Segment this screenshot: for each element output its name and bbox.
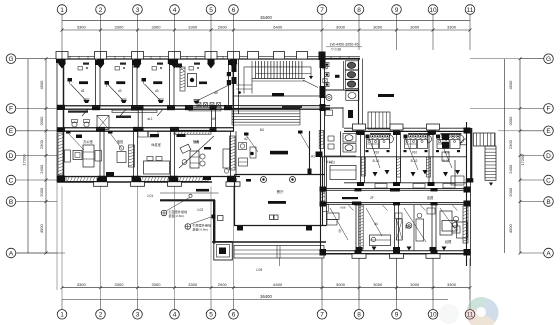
svg-text:3000: 3000 [373, 24, 383, 29]
svg-text:36400: 36400 [260, 294, 272, 299]
svg-text:6400: 6400 [273, 24, 283, 29]
big hall fixtures [246, 179, 286, 272]
svg-text:d3: d3 [118, 89, 122, 93]
svg-text:3000: 3000 [410, 24, 420, 29]
svg-text:3300: 3300 [447, 24, 457, 29]
grounding symbol 1 [161, 197, 190, 218]
svg-text:6: 6 [232, 7, 236, 14]
washroom dividers [344, 131, 467, 183]
svg-text:3000: 3000 [336, 282, 346, 287]
A line stub [16, 252, 65, 254]
svg-text:3300: 3300 [152, 282, 162, 287]
svg-text:宿舍: 宿舍 [193, 139, 200, 144]
canopy line and west wall of court [147, 189, 223, 244]
svg-text:8: 8 [357, 312, 361, 319]
right wing conduits [330, 135, 456, 242]
svg-text:d2: d2 [244, 137, 248, 141]
svg-text:2: 2 [99, 7, 103, 14]
svg-text:接待: 接待 [405, 224, 412, 229]
right corridor doors [352, 188, 434, 205]
toilet block walls [325, 59, 363, 129]
svg-text:3300: 3300 [447, 282, 457, 287]
svg-text:F: F [547, 106, 551, 113]
svg-text:4: 4 [173, 312, 177, 319]
upper room top marks [78, 63, 200, 71]
middle room right wall and shaft [230, 131, 323, 175]
svg-text:#10: #10 [412, 151, 418, 155]
entrance steps band [232, 108, 300, 125]
svg-text:5: 5 [209, 312, 213, 319]
corridor wiring runs [64, 107, 331, 129]
grid 6 wall middle section [232, 59, 239, 131]
toilet block lower fixtures [326, 91, 359, 118]
svg-text:d3: d3 [155, 89, 159, 93]
svg-text:2000: 2000 [218, 282, 228, 287]
equipment pad [214, 242, 233, 261]
level annotation [326, 43, 362, 52]
svg-text:2000: 2000 [39, 187, 44, 197]
svg-text:3: 3 [136, 7, 140, 14]
top grid bubbles 1-11 with leader lines [57, 5, 475, 57]
svg-text:17200: 17200 [22, 154, 27, 166]
svg-text:餐厅: 餐厅 [277, 189, 284, 194]
E wall columns [353, 124, 440, 135]
svg-text:h06: h06 [340, 206, 345, 210]
svg-text:B-01: B-01 [373, 159, 380, 163]
svg-text:2300: 2300 [39, 139, 44, 149]
svg-text:2F: 2F [370, 196, 374, 200]
svg-text:4500: 4500 [39, 224, 44, 234]
svg-text:J-05: J-05 [256, 268, 263, 272]
svg-text:D: D [546, 153, 551, 160]
svg-text:G: G [8, 56, 13, 63]
corridor walls F-E [64, 106, 331, 132]
bottom dimension lines [61, 282, 472, 299]
right wing south column stubs [352, 247, 440, 258]
top dimension lines [61, 15, 472, 32]
corridor crossing grid3 [137, 105, 159, 137]
svg-text:E: E [546, 128, 551, 135]
svg-text:D: D [9, 153, 14, 160]
svg-text:7: 7 [320, 7, 324, 14]
svg-text:B-02: B-02 [411, 159, 418, 163]
svg-text:3300: 3300 [77, 24, 87, 29]
svg-text:B-03: B-03 [443, 159, 450, 163]
svg-text:2400: 2400 [39, 164, 44, 174]
east staircase [461, 128, 497, 186]
right leaders [470, 59, 520, 131]
right wing main walls [321, 122, 471, 266]
washroom fixtures [362, 133, 465, 177]
svg-text:9: 9 [395, 7, 399, 14]
svg-text:7: 7 [320, 312, 324, 319]
svg-text:装置(-0.8m): 装置(-0.8m) [169, 213, 185, 218]
top wall window ticks [70, 56, 349, 59]
top wall column boxes middle section [248, 52, 326, 61]
right wing labels [338, 159, 452, 244]
right grid bubbles G-A with leader lines [520, 54, 553, 258]
toilet stalls [325, 61, 359, 89]
svg-text:17200: 17200 [520, 154, 525, 166]
left grid bubbles G-A with leader lines [6, 54, 57, 258]
upper room wiring and lamps [68, 64, 183, 104]
svg-text:3300: 3300 [188, 282, 198, 287]
top wall column boxes grids 1-6 [56, 52, 240, 69]
svg-text:3000: 3000 [410, 282, 420, 287]
corridor doors [82, 105, 232, 116]
right wing junction fills [320, 128, 471, 256]
svg-text:36400: 36400 [260, 15, 272, 20]
corridor light fixtures [68, 94, 394, 118]
svg-text:6: 6 [232, 312, 236, 319]
svg-text:J-02: J-02 [197, 208, 204, 212]
stair landing line and door fill [234, 93, 322, 96]
svg-text:d5: d5 [214, 91, 218, 95]
svg-text:C: C [546, 177, 551, 184]
lower room conduits [66, 131, 310, 153]
svg-text:2000: 2000 [508, 116, 513, 126]
left dimension lines [22, 57, 48, 254]
svg-text:2: 2 [99, 312, 103, 319]
svg-text:5: 5 [209, 7, 213, 14]
window hatch bands left block [58, 133, 208, 181]
svg-text:8: 8 [357, 7, 361, 14]
svg-text:3000: 3000 [373, 282, 383, 287]
svg-text:值班: 值班 [117, 139, 124, 144]
svg-text:B: B [9, 199, 13, 206]
svg-text:装置(-0.8m): 装置(-0.8m) [193, 226, 209, 231]
room 4-6 equipment [168, 60, 231, 104]
svg-text:A: A [546, 250, 551, 257]
right wing mid wall and AL2 room [311, 155, 467, 180]
bottom extension lines [57, 182, 470, 300]
svg-text:d3: d3 [81, 89, 85, 93]
svg-text:A1: A1 [311, 155, 315, 159]
middle room fixtures [239, 143, 334, 167]
corridor WC fixtures [72, 116, 110, 130]
svg-text:2000: 2000 [218, 24, 228, 29]
main staircase top [236, 61, 327, 94]
svg-text:1: 1 [60, 7, 64, 14]
lower room divider walls [100, 131, 236, 176]
svg-text:10: 10 [429, 7, 437, 14]
svg-text:aL1: aL1 [147, 117, 153, 121]
svg-text:G: G [546, 56, 551, 63]
svg-text:M1: M1 [260, 128, 265, 132]
svg-text:经理: 经理 [445, 239, 452, 244]
svg-text:AP: AP [212, 117, 216, 121]
wall junction fills [96, 127, 236, 183]
small stair [368, 112, 390, 129]
svg-text:3300: 3300 [115, 24, 125, 29]
far right office [440, 206, 468, 243]
small toilet pair [325, 131, 357, 156]
svg-text:11: 11 [467, 7, 474, 14]
svg-text:AL2: AL2 [329, 161, 335, 165]
grounding symbol 2 [185, 217, 212, 232]
svg-text:休息室: 休息室 [151, 142, 161, 147]
svg-text:4500: 4500 [39, 80, 44, 90]
svg-text:3300: 3300 [77, 282, 87, 287]
svg-text:4500: 4500 [508, 224, 513, 234]
svg-text:C: C [9, 177, 14, 184]
svg-text:3: 3 [136, 312, 140, 319]
watermark [439, 297, 499, 325]
svg-text:▽-0.36: ▽-0.36 [331, 48, 341, 52]
svg-text:3300: 3300 [152, 24, 162, 29]
svg-text:2000: 2000 [508, 187, 513, 197]
kitchen fixtures [442, 134, 464, 187]
svg-text:3000: 3000 [336, 24, 346, 29]
svg-text:2300: 2300 [508, 139, 513, 149]
svg-text:1W-4450-3050-45: 1W-4450-3050-45 [330, 43, 359, 47]
svg-text:9: 9 [395, 312, 399, 319]
left block outer walls [56, 56, 360, 183]
bottom grid bubbles 1-11 with leader lines [57, 258, 475, 319]
room label texts [83, 117, 264, 147]
svg-text:4: 4 [173, 7, 177, 14]
right dimension lines [505, 57, 526, 254]
grid 7 wall [319, 53, 325, 163]
svg-text:d4: d4 [374, 222, 378, 226]
bottom wall column stubs grids 2-4 [94, 178, 241, 186]
svg-text:4500: 4500 [508, 80, 513, 90]
office door leaves [348, 205, 458, 211]
svg-text:E: E [9, 128, 14, 135]
svg-text:J-01: J-01 [147, 194, 154, 198]
grid5 corridor shaft walls [210, 105, 217, 132]
svg-text:3300: 3300 [115, 282, 125, 287]
svg-text:A: A [9, 250, 14, 257]
big hall walls [235, 157, 327, 231]
corridor wall socket row [197, 103, 221, 107]
svg-text:1: 1 [60, 312, 64, 319]
washroom doors [375, 184, 455, 189]
svg-text:F: F [9, 106, 13, 113]
lower room furniture [65, 130, 231, 180]
svg-text:办公室: 办公室 [83, 139, 93, 144]
svg-text:3300: 3300 [188, 24, 198, 29]
svg-text:走廊: 走廊 [427, 195, 434, 200]
office row dividers [356, 205, 436, 251]
svg-text:10: 10 [429, 312, 437, 319]
svg-text:2400: 2400 [508, 164, 513, 174]
upper room divider walls [95, 59, 234, 108]
porch steps [212, 242, 326, 266]
svg-text:6400: 6400 [273, 282, 283, 287]
svg-text:B: B [546, 199, 550, 206]
svg-text:2000: 2000 [39, 116, 44, 126]
office furniture [323, 197, 468, 251]
